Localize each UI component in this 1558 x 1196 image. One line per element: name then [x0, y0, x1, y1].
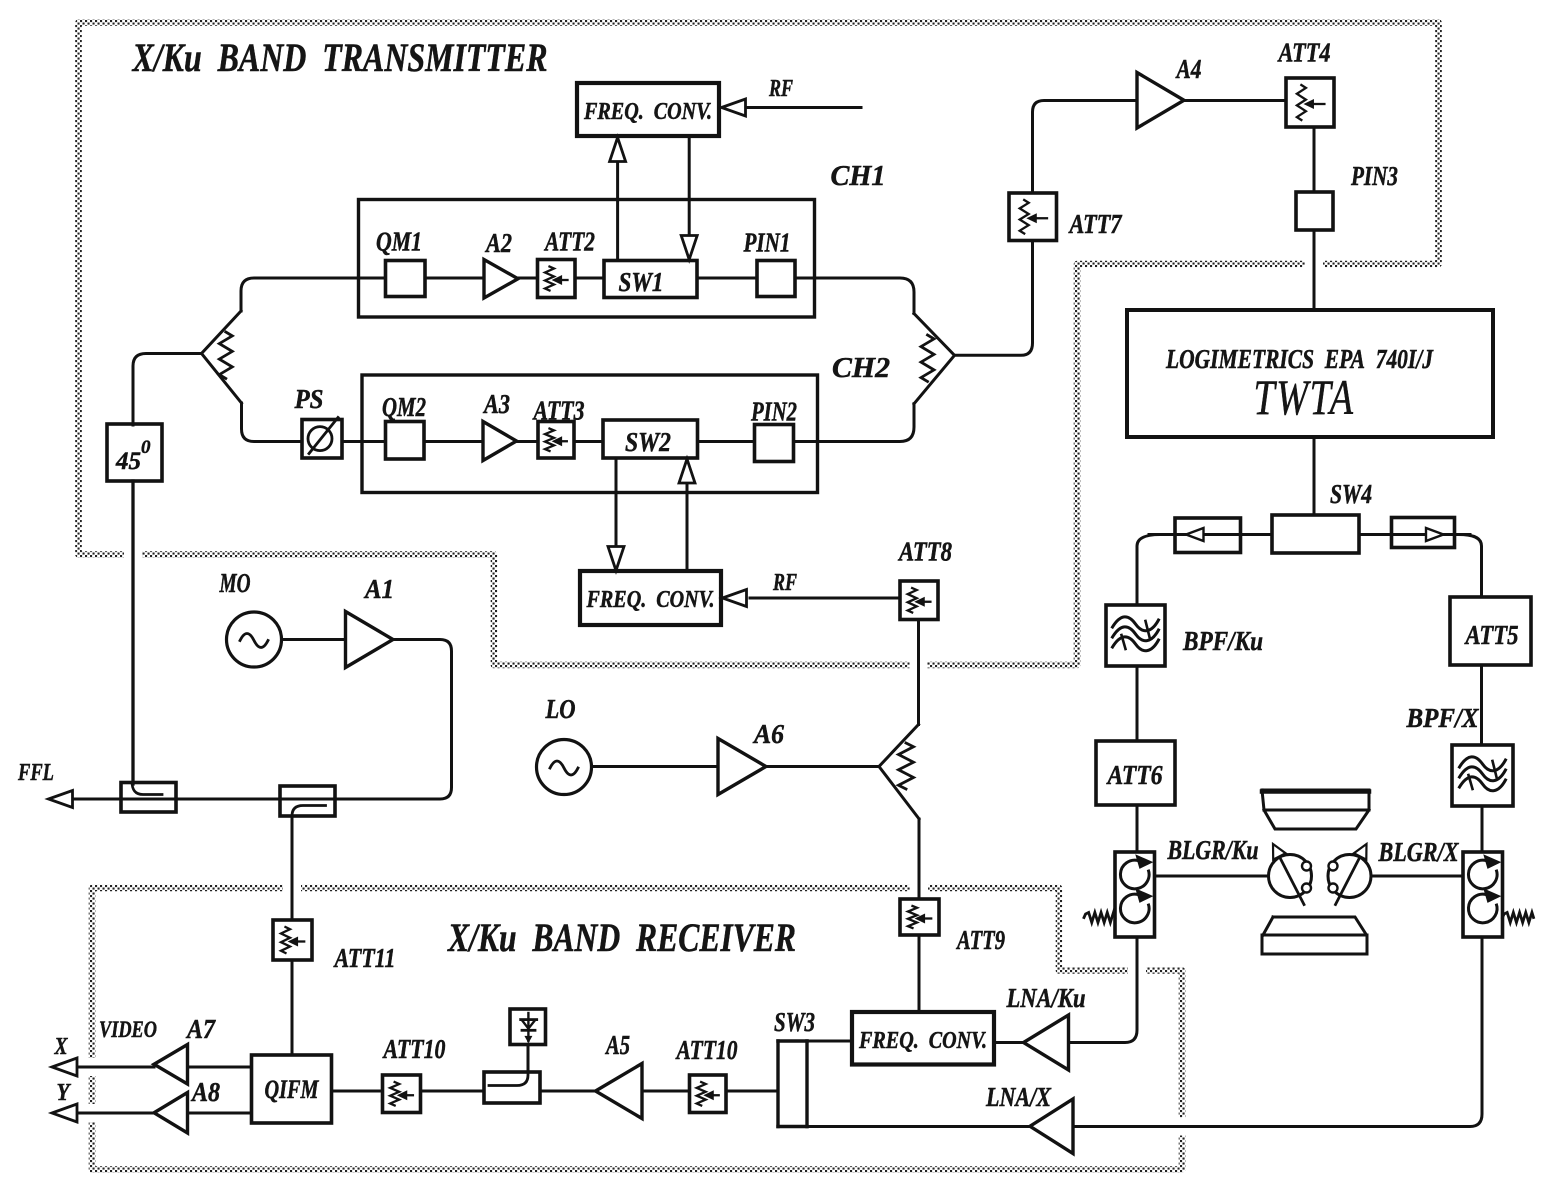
wire combiner to ATT7 — [955, 241, 1033, 355]
wire SW1 to PIN1 — [697, 277, 757, 280]
wire PIN2 to combiner — [794, 404, 915, 442]
video amplifier A8 — [154, 1093, 188, 1134]
svg-text:QIFM: QIFM — [265, 1075, 320, 1104]
rotary joint X (right) — [1328, 855, 1371, 898]
amplifier A6 — [718, 739, 766, 795]
wire FREQ. CONV. to SW1 with down arrow — [688, 136, 691, 233]
termination load at BLGR/Ku — [1084, 913, 1115, 923]
svg-text:BLGR/Ku: BLGR/Ku — [1167, 835, 1259, 865]
wire ATT6 to BLGR/Ku — [1136, 805, 1139, 852]
switch SW3 — [776, 1041, 779, 1127]
switch SW1 — [604, 261, 697, 298]
wire LNA/Ku to FREQ. CONV. — [994, 1041, 1024, 1044]
attenuator ATT8 — [900, 581, 938, 620]
svg-text:X/Ku BAND RECEIVER: X/Ku BAND RECEIVER — [446, 915, 796, 960]
wire A3 to ATT3 — [517, 440, 539, 443]
svg-text:ATT9: ATT9 — [955, 925, 1005, 955]
svg-text:ATT6: ATT6 — [1106, 760, 1163, 790]
wire ATT5 to BPF/X — [1480, 665, 1483, 745]
svg-text:A5: A5 — [604, 1030, 630, 1060]
svg-text:A3: A3 — [482, 389, 510, 419]
attenuator ATT9 — [900, 899, 939, 935]
wire SW4 through left isolator — [1149, 533, 1272, 536]
wire BLGR/Ku down to LNA/Ku — [1069, 937, 1138, 1043]
wire QIFM to ATT10a — [332, 1090, 383, 1093]
wire rotary joint to BLGR/X — [1371, 875, 1463, 878]
svg-text:SW2: SW2 — [625, 427, 671, 457]
svg-text:ATT11: ATT11 — [333, 943, 396, 973]
svg-text:FFL: FFL — [17, 760, 54, 786]
wire ATT11 to QIFM — [291, 960, 294, 1055]
PIN switch PIN2 — [755, 425, 794, 462]
wire MO to A1 — [282, 638, 346, 641]
svg-text:X: X — [54, 1034, 69, 1060]
wire ATT7 up to A4 — [1033, 101, 1138, 194]
svg-text:QM2: QM2 — [382, 392, 426, 422]
wire FREQ. CONV. to SW3 — [807, 1040, 852, 1043]
termination load at BLGR/X — [1503, 913, 1534, 923]
attenuator ATT2 — [538, 260, 576, 298]
directional coupler (FFL) — [121, 783, 176, 813]
wire ATT2 to SW1 — [575, 277, 604, 280]
circulator assembly BLGR/Ku — [1115, 852, 1155, 937]
video amplifier A7 — [154, 1045, 188, 1085]
svg-text:BLGR/X: BLGR/X — [1378, 837, 1460, 867]
wire LO to A6 — [592, 765, 719, 768]
svg-text:BPF/X: BPF/X — [1406, 703, 1480, 733]
switch SW4 (center box) — [1272, 515, 1359, 553]
wire RF into ATT8 — [750, 597, 900, 600]
svg-text:PIN2: PIN2 — [750, 397, 797, 427]
amplifier A5 — [596, 1064, 643, 1119]
wire PS to QM2 — [342, 440, 386, 443]
low noise amplifier LNA/Ku — [1024, 1015, 1069, 1070]
amplifier A2 — [484, 260, 518, 299]
wire A5 to ATT10b — [642, 1090, 690, 1093]
wire coupler up to detector — [527, 1045, 530, 1073]
attenuator ATT11 — [273, 920, 312, 960]
wire PIN1 to combiner — [795, 278, 914, 314]
svg-text:ATT7: ATT7 — [1068, 209, 1123, 239]
svg-text:ATT4: ATT4 — [1277, 38, 1331, 68]
LO power divider — [879, 725, 919, 819]
wire QM2 to A3 — [424, 440, 483, 443]
phase shifter PS — [302, 420, 342, 459]
rotary joint Ku (left) — [1269, 855, 1312, 898]
wire QM1 to A2 — [425, 277, 484, 280]
master oscillator MO — [227, 612, 282, 667]
svg-text:A7: A7 — [185, 1014, 216, 1044]
svg-text:SW3: SW3 — [774, 1007, 815, 1037]
directional coupler (detector) — [484, 1072, 540, 1103]
PIN switch PIN1 — [757, 261, 795, 297]
wire ATT10b to SW3 — [726, 1090, 778, 1093]
svg-text:RF: RF — [772, 570, 797, 596]
svg-text:SW4: SW4 — [1330, 479, 1372, 509]
directional coupler (to ATT11) — [280, 786, 335, 816]
isolator right (arrow right) — [1392, 518, 1455, 548]
wire right isolator down to ATT5 — [1460, 535, 1482, 598]
attenuator ATT10 (right) — [690, 1075, 727, 1113]
svg-text:FREQ. CONV.: FREQ. CONV. — [583, 99, 712, 125]
svg-text:Y: Y — [57, 1080, 72, 1106]
wire ATT3 to SW2 — [574, 440, 603, 443]
45 degree section box — [107, 424, 162, 481]
wire BLGR/Ku to rotary joint — [1155, 875, 1269, 878]
svg-text:FREQ. CONV.: FREQ. CONV. — [858, 1028, 987, 1054]
wire SW2 to FREQ. CONV. with down arrow — [615, 458, 618, 546]
wire SW1 to FREQ. CONV. with up arrow — [616, 161, 619, 260]
low noise amplifier LNA/X — [1030, 1099, 1073, 1154]
wire RF input with arrow into FREQ. CONV. (CH1) — [745, 106, 861, 109]
wire BLGR/X down to LNA/X — [1073, 937, 1482, 1127]
antenna horn (top) — [1262, 790, 1369, 829]
frequency converter FREQ. CONV. (receiver) — [852, 1012, 994, 1065]
svg-text:A6: A6 — [752, 719, 784, 749]
svg-text:LNA/X: LNA/X — [985, 1082, 1052, 1112]
svg-text:A1: A1 — [363, 574, 394, 604]
svg-text:VIDEO: VIDEO — [99, 1017, 157, 1042]
isolator left (arrow left) — [1175, 518, 1241, 553]
channel box CH1 — [359, 200, 815, 318]
wire left isolator down to BPF/Ku — [1137, 535, 1160, 606]
svg-text:X/Ku BAND TRANSMITTER: X/Ku BAND TRANSMITTER — [131, 35, 548, 80]
svg-text:LO: LO — [545, 694, 576, 724]
modulator QM2 — [386, 422, 425, 460]
wire SW4 through right isolator — [1359, 533, 1470, 536]
X video output arrow — [73, 1066, 154, 1069]
local oscillator LO — [537, 740, 592, 795]
svg-text:TWTA: TWTA — [1254, 369, 1355, 425]
svg-text:ATT10: ATT10 — [382, 1034, 446, 1064]
attenuator ATT5 — [1450, 597, 1531, 665]
antenna horn (bottom) — [1262, 917, 1367, 954]
svg-text:ATT8: ATT8 — [897, 537, 952, 567]
attenuator ATT3 — [538, 422, 574, 459]
wire splitter to QM1 — [241, 278, 386, 311]
attenuator ATT10 (left) — [383, 1075, 421, 1113]
svg-text:PIN3: PIN3 — [1350, 161, 1398, 191]
svg-text:BPF/Ku: BPF/Ku — [1182, 626, 1263, 656]
wire A2 to ATT2 — [518, 277, 538, 280]
attenuator ATT6 — [1096, 741, 1175, 805]
attenuator ATT4 — [1286, 78, 1334, 127]
wire coupler to A5 — [540, 1090, 596, 1093]
PIN switch PIN3 — [1296, 192, 1333, 230]
svg-text:ATT2: ATT2 — [543, 227, 595, 257]
wire ATT10 to coupler — [421, 1090, 485, 1093]
svg-text:SW1: SW1 — [619, 267, 664, 297]
svg-text:A8: A8 — [190, 1077, 220, 1107]
modulator QM1 — [386, 261, 426, 297]
svg-text:RF: RF — [768, 76, 793, 102]
wire coupler down to ATT11 — [291, 816, 294, 920]
svg-text:ATT3: ATT3 — [532, 396, 585, 426]
amplifier A4 — [1137, 73, 1184, 129]
frequency converter FREQ. CONV. (CH2) — [580, 571, 721, 625]
wire PIN3 to TWTA — [1313, 230, 1316, 310]
svg-text:A2: A2 — [484, 228, 512, 258]
svg-text:LNA/Ku: LNA/Ku — [1006, 983, 1086, 1013]
wire splitter to PS — [242, 403, 303, 442]
TWTA amplifier LOGIMETRICS EPA 740I/J — [1127, 310, 1493, 437]
bandpass filter BPF/Ku — [1106, 605, 1165, 666]
switch SW2 — [603, 420, 698, 458]
wire splitter to 45-deg phase shifter — [133, 354, 202, 426]
svg-text:CH1: CH1 — [831, 160, 886, 192]
divider to ATT9 wire — [918, 819, 921, 899]
amplifier A1 — [346, 612, 394, 668]
circulator assembly BLGR/X — [1463, 852, 1503, 937]
svg-text:ATT10: ATT10 — [675, 1035, 738, 1065]
power combiner (CH1/CH2) — [914, 314, 955, 404]
detector diode — [510, 1009, 546, 1045]
wire A6 to LO divider — [766, 765, 879, 768]
wire FREQ. CONV. to SW2 with up arrow — [686, 484, 689, 571]
wire QIFM to A8 — [188, 1112, 252, 1115]
wire ATT9 to FREQ. CONV. — [918, 935, 921, 1012]
wire ATT8 to LO divider — [917, 620, 920, 725]
wire SW2 to PIN2 — [698, 440, 755, 443]
svg-text:A4: A4 — [1175, 54, 1202, 84]
wire ATT4 to PIN3 — [1313, 127, 1316, 192]
wire A1 down to coupler bus — [73, 640, 452, 800]
QIFM demodulator — [252, 1055, 332, 1123]
transmitter dotted boundary frame — [79, 23, 1439, 666]
wire QIFM to A7 — [188, 1066, 252, 1069]
wire BPF/Ku to ATT6 — [1136, 666, 1139, 741]
wire LNA/X output to SW3 (bottom bus) — [807, 1125, 1030, 1128]
FFL output arrow — [49, 791, 73, 808]
wire A4 to ATT4 — [1184, 99, 1286, 102]
bandpass filter BPF/X — [1452, 745, 1513, 806]
amplifier A3 — [483, 422, 517, 461]
wire 45-deg box down to FFL coupler — [131, 481, 134, 784]
svg-text:QM1: QM1 — [376, 227, 422, 257]
wire BPF/X to BLGR/X — [1481, 806, 1484, 852]
svg-text:ATT5: ATT5 — [1464, 620, 1519, 650]
frequency converter FREQ. CONV. (CH1) — [577, 83, 719, 136]
channel box CH2 — [362, 375, 818, 493]
wire clearance halos — [1305, 250, 1323, 278]
attenuator ATT7 — [1009, 193, 1057, 241]
wire TWTA to SW4 — [1313, 437, 1316, 515]
svg-text:PS: PS — [294, 384, 324, 414]
power splitter (CH1/CH2) — [202, 311, 242, 403]
receiver dotted boundary frame — [92, 888, 1182, 1170]
svg-text:MO: MO — [219, 568, 251, 598]
svg-text:PIN1: PIN1 — [743, 228, 791, 258]
svg-text:FREQ. CONV.: FREQ. CONV. — [586, 587, 715, 613]
svg-text:CH2: CH2 — [832, 352, 890, 384]
Y video output arrow — [73, 1112, 154, 1115]
